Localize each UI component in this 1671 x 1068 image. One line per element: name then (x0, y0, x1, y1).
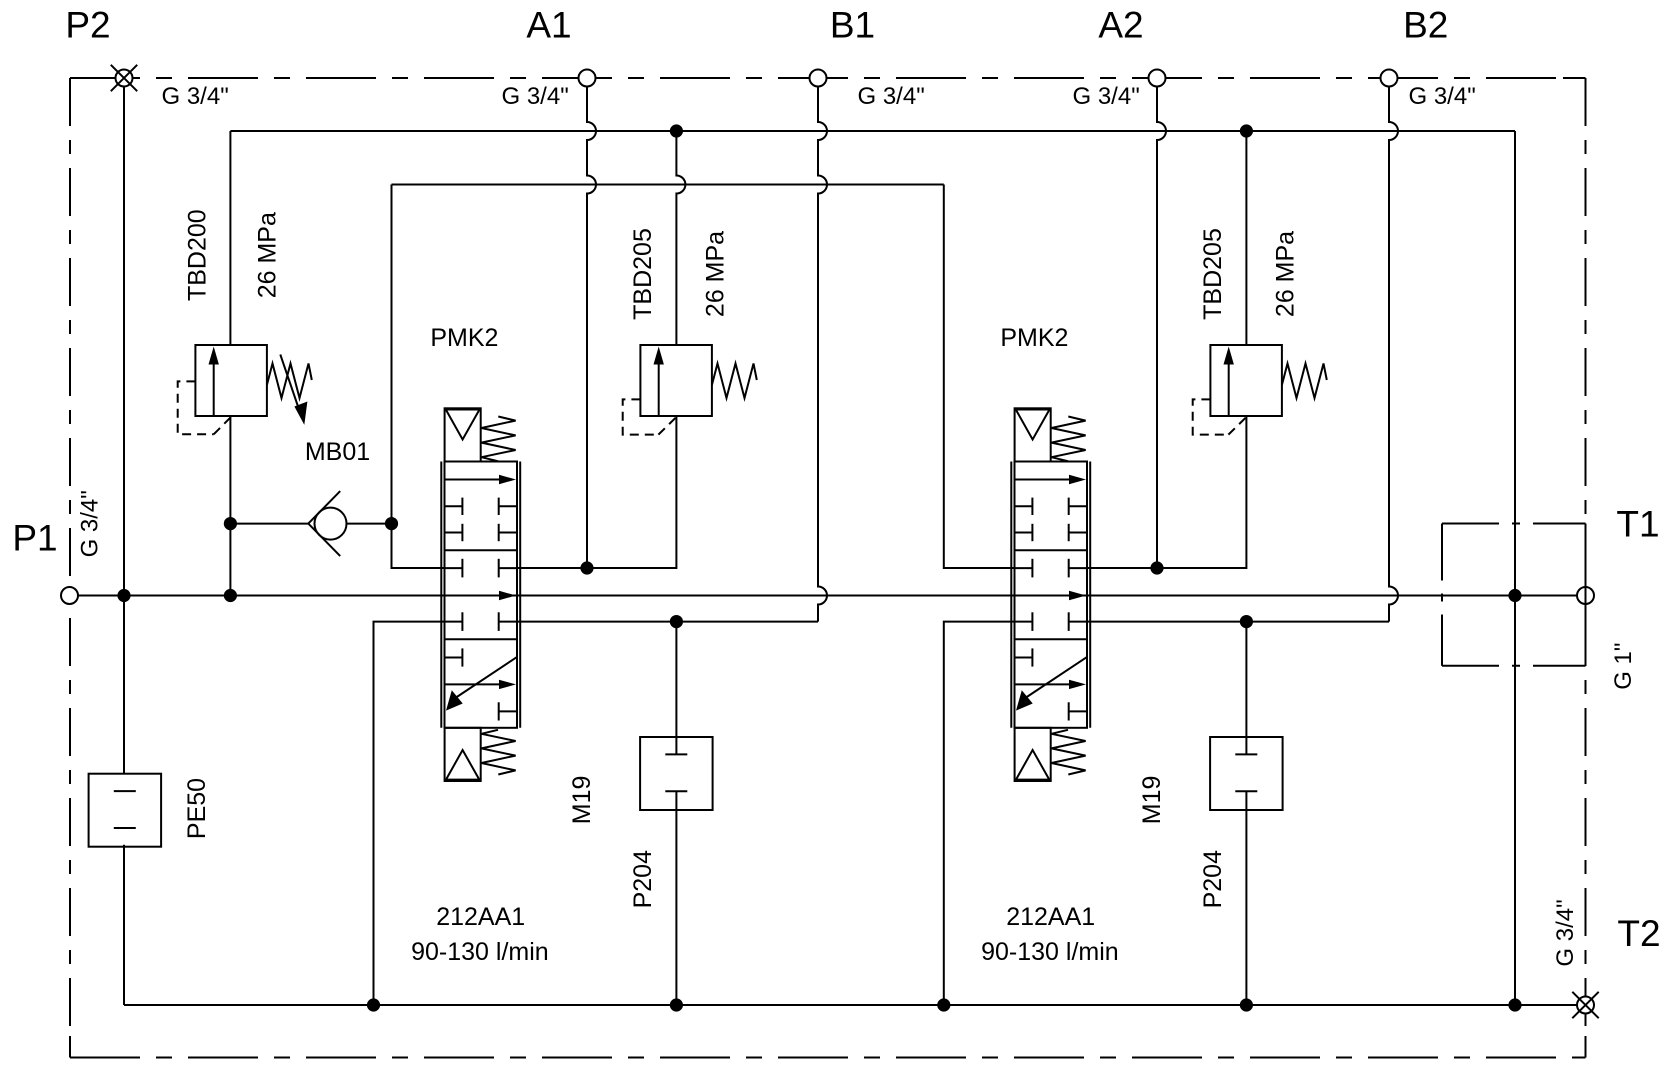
svg-text:G 3/4": G 3/4" (162, 83, 229, 110)
svg-text:G 1": G 1" (1610, 643, 1637, 690)
wire valve 2 port A to A2 and TBD205 (1087, 416, 1246, 568)
wire B1 riser (818, 87, 827, 622)
junction node P204 no.2 on tank rail (1240, 998, 1253, 1011)
svg-text:P2: P2 (65, 5, 110, 46)
junction node A1 work port (580, 561, 593, 574)
gauge port element M19 no.2 (1210, 737, 1283, 810)
wire valve 2 tank drain (944, 622, 1015, 1005)
wire relief discharge top rail (230, 130, 1515, 132)
svg-text:MB01: MB01 (305, 438, 370, 466)
svg-text:212AA1: 212AA1 (436, 903, 525, 931)
wire TBD200 outlet to pressure rail (229, 416, 231, 596)
check valve MB01 (308, 491, 346, 556)
svg-text:26 MPa: 26 MPa (701, 231, 729, 317)
svg-text:90-130 l/min: 90-130 l/min (411, 938, 549, 966)
wire check valve inlet (230, 523, 308, 525)
junction node P204 no.1 on tank rail (670, 998, 683, 1011)
svg-text:P204: P204 (629, 850, 657, 908)
wire A1 riser (587, 87, 596, 569)
wire PE50 to bottom tank rail (123, 845, 125, 1005)
svg-text:G 3/4": G 3/4" (502, 83, 569, 110)
junction node TBD205 no.1 top (670, 124, 683, 137)
svg-text:P204: P204 (1199, 850, 1227, 908)
svg-text:A1: A1 (526, 5, 571, 46)
junction node check valve outlet tee (385, 517, 398, 530)
proportional directional valve PMK2 no.1 (441, 408, 520, 781)
svg-text:A2: A2 (1098, 5, 1143, 46)
wire main pressure rail P1-T1 (78, 595, 1577, 597)
junction node M19 no.2 tee (1240, 615, 1253, 628)
wire B2 riser (1389, 87, 1398, 622)
svg-text:T2: T2 (1617, 913, 1660, 954)
svg-text:26 MPa: 26 MPa (254, 212, 282, 298)
svg-text:M19: M19 (1138, 776, 1166, 825)
port B2 (1381, 70, 1398, 87)
svg-text:TBD205: TBD205 (629, 228, 657, 320)
junction node valve 2 drain on tank rail (937, 998, 950, 1011)
junction node T drop on tank rail (1508, 998, 1521, 1011)
svg-text:G 3/4": G 3/4" (1073, 83, 1140, 110)
junction node TBD205 no.2 top (1240, 124, 1253, 137)
svg-text:G 3/4": G 3/4" (1409, 83, 1476, 110)
junction node T line on pressure rail (1508, 589, 1521, 602)
wire TBD205 no.2 discharge riser (1245, 131, 1247, 345)
svg-text:B1: B1 (830, 5, 875, 46)
port A2 (1149, 70, 1166, 87)
port T2 (plugged) (1572, 992, 1598, 1018)
wire check valve outlet (347, 523, 392, 525)
svg-text:PMK2: PMK2 (1000, 324, 1068, 352)
wire valve 2 feed riser (944, 185, 1015, 569)
svg-text:G 3/4": G 3/4" (858, 83, 925, 110)
junction node M19 no.1 tee (670, 615, 683, 628)
wire P2 riser down to PE50 (123, 87, 125, 774)
relief valve TBD205 no.1 (623, 345, 757, 435)
port T1 (1577, 587, 1594, 604)
svg-text:26 MPa: 26 MPa (1271, 231, 1299, 317)
svg-text:TBD205: TBD205 (1199, 228, 1227, 320)
svg-text:G 3/4": G 3/4" (1552, 899, 1579, 966)
wire M19 no.2 to bottom tank rail (1245, 791, 1247, 1005)
port P2 (plugged) (111, 65, 137, 91)
port B1 (810, 70, 827, 87)
svg-text:G 3/4": G 3/4" (76, 490, 103, 557)
wire TBD200 inlet riser (229, 131, 231, 345)
wire relief discharge drop to T1 (1514, 131, 1516, 1005)
gauge port element M19 no.1 (640, 737, 713, 810)
wire M19 no.1 to bottom tank rail (675, 791, 677, 1005)
wire A2 riser (1157, 87, 1166, 569)
junction node TBD200 on pressure rail (224, 589, 237, 602)
wire valve 1 feed riser (392, 185, 445, 569)
wire valve 1 port A to A1 and TBD205 (517, 416, 676, 568)
wire valve 1 tank drain (374, 622, 445, 1005)
wire TBD205 no.1 discharge riser (676, 131, 685, 345)
svg-text:M19: M19 (568, 776, 596, 825)
proportional directional valve PMK2 no.2 (1011, 408, 1090, 781)
svg-text:B2: B2 (1403, 5, 1448, 46)
wire feed rail between valves (392, 184, 944, 186)
junction node P2 riser on pressure rail (117, 589, 130, 602)
svg-text:T1: T1 (1616, 504, 1659, 545)
junction node valve 1 drain on tank rail (367, 998, 380, 1011)
T1 cavity outline (1442, 524, 1586, 666)
svg-text:P1: P1 (12, 518, 57, 559)
junction node A2 work port (1150, 561, 1163, 574)
wire bottom tank rail (124, 1004, 1577, 1006)
port P1 (61, 587, 78, 604)
wire M19 no.2 gauge branch (1245, 622, 1247, 755)
junction node check valve inlet tee (224, 517, 237, 530)
wire valve 1 port B to B1 (517, 621, 818, 623)
gauge port element PE50 (89, 774, 162, 847)
svg-text:PMK2: PMK2 (430, 324, 498, 352)
svg-text:90-130 l/min: 90-130 l/min (981, 938, 1119, 966)
svg-text:TBD200: TBD200 (184, 209, 212, 301)
relief valve TBD205 no.2 (1193, 345, 1327, 435)
svg-text:212AA1: 212AA1 (1006, 903, 1095, 931)
relief valve TBD200 (178, 345, 312, 434)
wire valve 2 port B to B2 (1087, 621, 1389, 623)
wire M19 no.1 gauge branch (675, 622, 677, 755)
port A1 (579, 70, 596, 87)
svg-text:PE50: PE50 (183, 778, 211, 839)
